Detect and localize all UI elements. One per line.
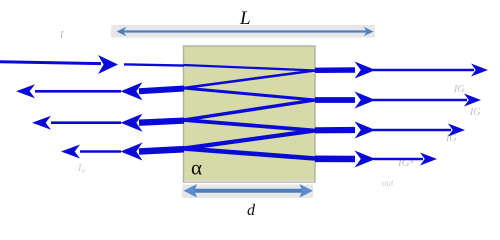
entry ray (row 1 left) xyxy=(0,62,101,64)
right exit row 4 xyxy=(315,156,355,163)
svg-text:L: L xyxy=(239,8,251,29)
svg-text:IG: IG xyxy=(445,133,457,144)
bottom dimension halo band xyxy=(182,185,313,199)
left exit row 3 xyxy=(139,121,184,123)
internal zigzag rays xyxy=(184,65,316,71)
left exit row 4 xyxy=(139,149,184,151)
top dimension halo band xyxy=(111,25,375,38)
right exit row 2 xyxy=(315,97,355,103)
svg-text:IG: IG xyxy=(453,84,465,95)
left exit row 2 xyxy=(139,89,184,92)
svg-text:I₀: I₀ xyxy=(77,163,85,174)
right exit row 1 xyxy=(315,67,355,73)
svg-text:IG⁴: IG⁴ xyxy=(397,157,414,169)
gain medium slab xyxy=(184,46,316,182)
top dimension arrow (cavity length) xyxy=(121,30,369,32)
svg-text:IG: IG xyxy=(469,107,481,118)
bottom dimension arrow (slab width) xyxy=(189,189,307,193)
svg-text:d: d xyxy=(247,202,256,219)
svg-text:I: I xyxy=(59,30,64,41)
svg-text:out: out xyxy=(382,178,394,188)
right exit row 3 xyxy=(315,127,355,134)
svg-text:α: α xyxy=(191,156,202,180)
